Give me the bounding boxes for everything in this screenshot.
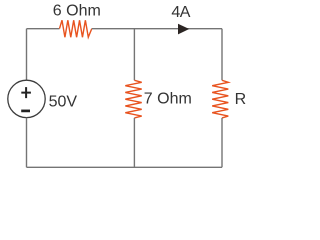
wire middle vertical upper [133, 29, 135, 81]
resistor R3 R zigzag [212, 80, 228, 118]
voltage source minus sign [21, 110, 30, 113]
wire right vertical lower [221, 118, 223, 167]
wire left vertical upper [26, 29, 28, 80]
wire right vertical upper [221, 29, 223, 81]
wire top horizontal left segment [27, 28, 60, 30]
svg-text:R: R [235, 91, 247, 108]
resistor R1 6 Ohm zigzag [60, 20, 92, 37]
label 6 Ohm [53, 3, 101, 20]
svg-text:7 Ohm: 7 Ohm [144, 91, 192, 108]
voltage source plus sign [21, 87, 31, 98]
voltage source V1 circle [8, 80, 45, 117]
svg-text:50V: 50V [49, 93, 78, 110]
wire middle vertical lower [133, 118, 135, 167]
svg-text:6 Ohm: 6 Ohm [53, 3, 101, 20]
svg-text:4A: 4A [171, 4, 190, 21]
label R [235, 91, 247, 108]
wire top horizontal right segment [92, 28, 222, 30]
resistor R2 7 Ohm zigzag [125, 80, 141, 118]
label 7 Ohm [144, 91, 192, 108]
label 4A [171, 4, 190, 21]
current arrow 4A head [178, 24, 189, 35]
label 50V [49, 93, 78, 110]
wire bottom horizontal [27, 166, 223, 168]
wire left vertical lower [26, 118, 28, 168]
